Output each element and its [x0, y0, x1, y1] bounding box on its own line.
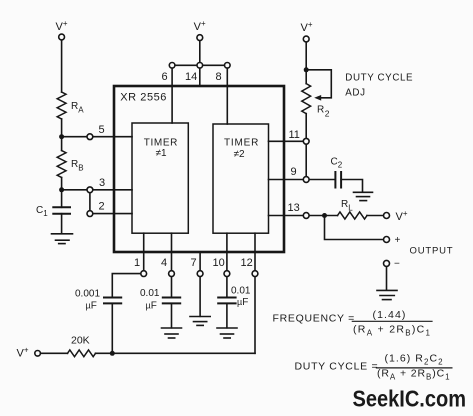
wire pin 10 to 0.01uF cap: [226, 277, 228, 298]
wire node down to + output: [325, 216, 384, 240]
terminal pin 2: [87, 211, 93, 217]
wire 0.01uF cap (pin 10) to ground: [226, 303, 228, 327]
svg-text:≠1: ≠1: [156, 148, 167, 159]
svg-text:+: +: [395, 235, 401, 246]
wire R2 to pin 11 terminal: [305, 114, 307, 139]
wire pin 7 stub: [199, 252, 201, 271]
svg-text:R2: R2: [317, 105, 330, 119]
node junction RA/RB/pin5: [59, 134, 64, 139]
svg-text:(RA + 2RB)C1: (RA + 2RB)C1: [377, 368, 451, 382]
svg-text:ADJ: ADJ: [345, 87, 365, 98]
wire pin 4 stub: [171, 233, 173, 271]
wire V+ top-left down to RA: [61, 40, 63, 92]
svg-text:0.001: 0.001: [75, 289, 100, 300]
terminal RL V+: [384, 213, 390, 219]
wire pin3 to pin2 link: [89, 193, 91, 211]
svg-text:5: 5: [99, 124, 105, 136]
terminal pin 11: [303, 138, 309, 144]
wire RB to node: [61, 178, 63, 190]
terminal pin 10: [224, 271, 230, 277]
capacitor 0.01uF (pin 10): [218, 298, 235, 304]
svg-text:RB: RB: [71, 159, 84, 173]
wire pin 12 down to bus: [254, 277, 256, 354]
wire pin 4 to 0.01uF cap: [171, 277, 173, 298]
svg-text:12: 12: [241, 257, 253, 269]
svg-text:10: 10: [213, 257, 225, 269]
wire pin 1 stub: [143, 233, 145, 271]
resistor 20K: [68, 350, 96, 357]
node junction R2 top / wiper loop: [304, 67, 309, 72]
wire C2 to ground: [341, 180, 362, 193]
svg-text:RL: RL: [341, 199, 353, 213]
ground below pin 10 cap: [217, 328, 237, 338]
resistor RA: [57, 92, 66, 119]
svg-text:TIMER: TIMER: [144, 138, 178, 149]
ground below C1: [52, 234, 73, 244]
svg-text:7: 7: [191, 257, 197, 269]
terminal pin 9: [303, 177, 309, 183]
wire - output to ground: [386, 267, 388, 291]
terminal V+ top-left: [59, 34, 65, 40]
wire 20K to node: [96, 352, 113, 354]
capacitor 0.001uF: [104, 298, 121, 304]
wire pin 2 into timer 1: [93, 213, 132, 215]
wire pin 11 to pin 9 link: [305, 144, 307, 176]
terminal output -: [384, 260, 390, 266]
svg-text:µF: µF: [86, 301, 97, 312]
terminal pin 12: [252, 271, 258, 277]
wire pin 1 to 0.001uF cap: [112, 274, 141, 298]
svg-text:0.01: 0.01: [231, 286, 251, 297]
node junction pin13/RL/output: [322, 213, 327, 218]
terminal pin 14: [197, 63, 203, 69]
terminal V+ top-right: [303, 36, 309, 42]
terminal V+ top-middle: [197, 35, 203, 41]
capacitor C1: [53, 207, 70, 213]
svg-text:µF: µF: [237, 297, 248, 308]
wire pin 12 stub: [254, 233, 256, 271]
wire V+ top-right down: [305, 42, 307, 84]
svg-text:14: 14: [185, 71, 197, 83]
svg-text:11: 11: [289, 129, 300, 141]
wire pin 11 from timer 2: [269, 140, 304, 142]
svg-text:6: 6: [162, 71, 168, 83]
wire node to RB: [61, 137, 63, 151]
svg-text:C1: C1: [36, 205, 48, 218]
svg-text:FREQUENCY =: FREQUENCY =: [273, 313, 355, 325]
ground of output: [377, 290, 397, 299]
node junction RB/C1/pin3: [59, 187, 64, 192]
svg-text:V+: V+: [17, 346, 29, 360]
formula DUTY CYCLE: [295, 353, 452, 382]
ground below pin 4 cap: [162, 328, 182, 338]
terminal V+ bottom-left: [35, 351, 41, 357]
node junction 20K/0.001uF/bus: [110, 351, 115, 356]
formula FREQUENCY: [273, 309, 433, 338]
svg-text:V+: V+: [301, 20, 313, 34]
terminal pin 3: [87, 187, 93, 193]
svg-text:DUTY CYCLE =: DUTY CYCLE =: [295, 361, 379, 373]
terminal output +: [384, 237, 390, 243]
wire RA to node: [61, 119, 63, 137]
wire pin 5 into timer 1: [93, 136, 132, 138]
wire RL to V+ terminal: [367, 215, 384, 217]
wire supply bus pins 6-14-8: [172, 64, 227, 66]
wire pin 14 stub: [199, 65, 201, 86]
svg-text:OUTPUT: OUTPUT: [410, 246, 454, 257]
wire duty cycle adj wiper loop: [306, 70, 331, 98]
terminal pin 6: [169, 63, 175, 69]
wire pin 13 from timer 2: [269, 215, 304, 217]
svg-text:C2: C2: [331, 157, 343, 170]
svg-text:13: 13: [288, 202, 300, 214]
terminal pin 13: [303, 213, 309, 219]
ground below pin 7: [190, 317, 210, 326]
terminal pin 5: [87, 134, 93, 140]
svg-text:3: 3: [99, 177, 105, 189]
capacitor C2: [335, 172, 341, 188]
wire node to pin 3 terminal: [62, 189, 87, 191]
svg-text:TIMER: TIMER: [224, 138, 259, 149]
wire pin 13 to node: [309, 215, 337, 217]
wire pin 3 into timer 1: [93, 189, 132, 191]
IC U1 XR 2556 outer box: [114, 86, 284, 252]
svg-text:DUTY CYCLE: DUTY CYCLE: [345, 73, 413, 84]
svg-text:V+: V+: [194, 19, 206, 33]
ground of C2: [354, 192, 373, 200]
svg-text:1: 1: [134, 257, 140, 269]
wire pin 7 to ground: [199, 277, 201, 317]
wire V+ bottom-left to 20K: [40, 352, 67, 354]
timer block 1: [132, 123, 188, 233]
wire 0.001uF cap to bus: [111, 303, 113, 353]
svg-text:V+: V+: [396, 209, 408, 223]
svg-text:2: 2: [99, 201, 105, 213]
wire node to C1: [61, 190, 63, 208]
wire C1 to ground: [61, 214, 63, 234]
svg-text:RA: RA: [71, 101, 84, 115]
terminal pin 7: [197, 271, 203, 277]
wire node to pin 5 terminal: [62, 136, 87, 138]
svg-text:(1.6) R2C2: (1.6) R2C2: [385, 353, 444, 367]
capacitor 0.01uF (pin 4): [163, 298, 180, 304]
svg-text:SeekIC.com: SeekIC.com: [353, 386, 467, 412]
arrowhead of wiper pointing at R2: [314, 95, 321, 101]
timer block 2: [213, 124, 269, 233]
svg-text:XR 2556: XR 2556: [120, 92, 167, 104]
svg-text:(1.44): (1.44): [373, 309, 407, 321]
resistor RL: [338, 212, 368, 219]
svg-text:8: 8: [216, 71, 222, 83]
wire pin 8 stub: [226, 65, 228, 124]
svg-text:−: −: [394, 259, 400, 270]
svg-text:9: 9: [291, 166, 297, 178]
svg-text:4: 4: [161, 257, 167, 269]
terminal pin 1: [141, 271, 147, 277]
svg-text:≠2: ≠2: [234, 149, 245, 160]
svg-text:V+: V+: [56, 19, 68, 33]
wire bottom bus to pin 12: [112, 352, 255, 354]
wire pin 9 to C2: [309, 179, 335, 181]
resistor R2: [302, 84, 311, 114]
svg-text:µF: µF: [146, 301, 157, 312]
terminal pin 8: [225, 63, 231, 69]
wire pin 9 from timer 2: [269, 179, 304, 181]
svg-text:0.01: 0.01: [140, 288, 160, 299]
svg-text:20K: 20K: [71, 335, 90, 347]
svg-text:(RA + 2RB)C1: (RA + 2RB)C1: [353, 324, 431, 338]
wire pin 6 stub: [171, 65, 173, 123]
terminal pin 4: [169, 271, 175, 277]
wire 0.01uF cap to ground: [171, 303, 173, 327]
resistor RB: [57, 151, 66, 178]
wire V+ top-middle to bus: [199, 41, 201, 66]
wire pin 10 stub: [226, 233, 228, 271]
